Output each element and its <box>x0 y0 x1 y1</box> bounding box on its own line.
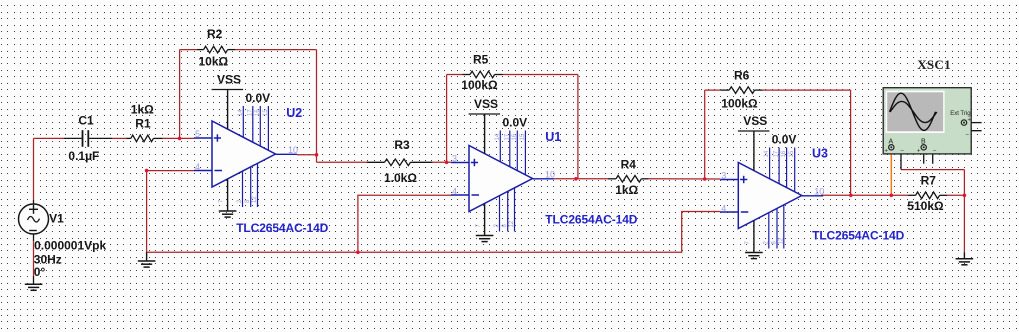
wire V1 to input corner vertical <box>33 138 35 200</box>
svg-text:14: 14 <box>764 150 770 157</box>
svg-text:V1: V1 <box>49 212 64 226</box>
oscilloscope XSC1 body <box>883 88 971 154</box>
svg-text:16: 16 <box>255 109 261 116</box>
capacitor C1 <box>64 130 112 147</box>
wire input top corner horizontal <box>34 137 65 139</box>
oscilloscope sine trace outer <box>890 93 936 130</box>
wire R2 left leg vertical <box>179 50 181 139</box>
wire U2 output to R3 <box>317 161 368 163</box>
svg-text:14: 14 <box>495 133 501 140</box>
clamp pins U2 top <box>243 106 268 150</box>
wire R6 right top horizontal <box>763 89 851 91</box>
wire U2 inverting input <box>147 170 195 172</box>
svg-text:R6: R6 <box>734 69 750 83</box>
wire V1 ground stub <box>33 276 35 284</box>
ground U1 <box>476 203 494 241</box>
svg-text:U2: U2 <box>286 106 302 120</box>
wire R1 to U2 noninverting input <box>163 137 195 139</box>
svg-text:17: 17 <box>247 109 253 116</box>
resistor R7 <box>908 192 947 199</box>
ground scope negative <box>956 252 974 265</box>
wire ext trig positive stub <box>967 122 982 124</box>
wire R7 to ground node <box>947 194 964 196</box>
junction R3 / R5 / U1 noninverting <box>445 161 449 165</box>
clamp pins U2 bottom <box>243 163 258 207</box>
svg-text:+: + <box>884 148 888 155</box>
junction scope A / output <box>890 194 894 198</box>
junction U2 inverting node <box>145 169 149 173</box>
svg-text:U3: U3 <box>812 146 828 160</box>
VSS rail U2 <box>212 90 244 130</box>
svg-text:0.0V: 0.0V <box>503 116 528 130</box>
clamp pins U1 bottom <box>500 188 515 232</box>
svg-text:17: 17 <box>774 150 780 157</box>
svg-text:4: 4 <box>195 162 200 172</box>
VSS rail U3 <box>738 131 770 171</box>
svg-text:R2: R2 <box>207 27 223 41</box>
wire V1 top lead <box>33 200 35 204</box>
op-amp U1 input leads <box>451 163 554 196</box>
svg-text:5: 5 <box>195 129 200 139</box>
wire R6 left leg vertical <box>704 90 706 179</box>
resistor R4 <box>608 176 649 183</box>
svg-text:12: 12 <box>252 196 258 203</box>
wire R5 right leg vertical <box>577 75 579 179</box>
wire U1 output to R4 <box>554 178 608 180</box>
svg-text:+: + <box>967 117 971 124</box>
junction R4 / R6 / U3 noninverting <box>703 177 707 181</box>
svg-text:VSS: VSS <box>474 97 498 111</box>
svg-text:3: 3 <box>721 171 726 181</box>
svg-text:12: 12 <box>509 220 515 227</box>
clamp pin numbers U2 top <box>238 109 269 116</box>
svg-text:TLC2654AC-14D: TLC2654AC-14D <box>812 229 904 243</box>
wire C1 to R1 <box>112 137 126 139</box>
svg-text:14: 14 <box>238 109 244 116</box>
op-amp U2 triangle <box>212 121 276 187</box>
svg-text:100kΩ: 100kΩ <box>461 78 498 92</box>
resistor R2 <box>197 46 236 53</box>
terminal polarity marks <box>884 117 971 155</box>
resistor R6 <box>721 87 763 94</box>
wire R2 right leg vertical <box>316 50 318 155</box>
wire ground rail bottom <box>147 171 721 253</box>
resistor R1 <box>126 135 163 142</box>
wire scope B positive stub <box>923 151 925 164</box>
wire V1 to ground <box>33 241 35 276</box>
wire R6 left top horizontal <box>705 89 721 91</box>
wire V1 bottom lead <box>33 234 35 241</box>
svg-text:16: 16 <box>512 133 518 140</box>
terminal B <box>921 145 926 150</box>
oscilloscope XSC1 screen <box>886 91 945 133</box>
resistor R5 <box>462 71 502 78</box>
svg-text:10: 10 <box>814 186 824 196</box>
svg-text:100kΩ: 100kΩ <box>721 97 758 111</box>
svg-text:−: − <box>900 147 904 154</box>
svg-text:10kΩ: 10kΩ <box>199 55 229 69</box>
svg-text:0.000001Vpk: 0.000001Vpk <box>34 239 106 253</box>
wire R5 left top horizontal <box>447 74 463 76</box>
wire U2 output horizontal <box>297 154 317 156</box>
wire U1 inverting input branch <box>358 195 452 252</box>
ground rail left <box>138 252 156 267</box>
svg-text:4: 4 <box>452 187 457 197</box>
svg-text:+: + <box>917 148 921 155</box>
ground U3 <box>745 220 763 258</box>
svg-text:1kΩ: 1kΩ <box>131 103 154 117</box>
wire R6 right leg vertical <box>850 90 852 195</box>
wire R5 right top horizontal <box>503 74 578 76</box>
op-amp U2 input leads <box>194 138 297 171</box>
svg-text:R5: R5 <box>473 53 489 67</box>
svg-text:1kΩ: 1kΩ <box>615 183 638 197</box>
svg-text:0.0V: 0.0V <box>246 91 271 105</box>
junction R6 right / U3 output <box>849 194 853 198</box>
ground U2 <box>219 179 237 217</box>
terminal A <box>889 145 894 150</box>
svg-text:C1: C1 <box>78 114 94 128</box>
svg-text:17: 17 <box>504 133 510 140</box>
terminal ext trig <box>961 120 966 125</box>
op-amp U1 triangle <box>469 146 533 212</box>
wire U2 output jog vertical <box>316 155 318 163</box>
wire scope negative horizontal <box>901 169 964 171</box>
svg-text:510kΩ: 510kΩ <box>907 199 944 213</box>
op-amp U3 triangle <box>738 163 802 229</box>
svg-text:−: − <box>965 131 969 138</box>
svg-text:R1: R1 <box>135 116 151 130</box>
svg-text:TLC2654AC-14D: TLC2654AC-14D <box>236 221 328 235</box>
svg-text:10: 10 <box>545 169 555 179</box>
svg-text:12: 12 <box>778 237 784 244</box>
junction U2 output / R2 right <box>315 153 319 157</box>
ground V1 <box>25 284 43 290</box>
wire R5 left leg vertical <box>446 75 448 163</box>
svg-text:0.1µF: 0.1µF <box>68 149 99 163</box>
junction R2 left / input node <box>178 137 182 141</box>
wire scope B negative stub <box>926 147 932 163</box>
svg-text:3: 3 <box>452 154 457 164</box>
svg-text:4: 4 <box>721 204 726 214</box>
svg-text:0.0V: 0.0V <box>772 133 797 147</box>
wire R4 to U3 noninverting input <box>649 178 721 180</box>
svg-text:R3: R3 <box>394 138 410 152</box>
junction R7 right / scope ground <box>963 194 967 198</box>
wire scope A positive orange <box>890 151 892 196</box>
wire R2 left top horizontal <box>180 49 197 51</box>
wire ext trig negative stub <box>964 125 982 130</box>
source V1 symbol <box>19 204 49 234</box>
clamp pins U3 top <box>770 148 795 192</box>
svg-text:R7: R7 <box>921 174 937 188</box>
wire scope ground vertical <box>963 170 965 253</box>
op-amp U3 input leads <box>720 180 823 213</box>
clamp pin numbers U3 top <box>764 150 795 157</box>
svg-text:U1: U1 <box>545 130 561 144</box>
svg-text:XSC1: XSC1 <box>917 57 951 72</box>
VSS rail U1 <box>469 114 501 154</box>
svg-text:15: 15 <box>520 133 526 140</box>
wire R2 right top horizontal <box>235 49 316 51</box>
resistor R3 <box>367 159 432 166</box>
clamp pins U3 bottom <box>769 205 784 249</box>
svg-text:16: 16 <box>781 150 787 157</box>
wire scope A negative lead stub <box>894 146 901 148</box>
wire scope A negative lead vertical <box>900 147 902 169</box>
junction ground rail / U1 inverting <box>356 250 360 254</box>
svg-text:0°: 0° <box>34 265 46 279</box>
svg-text:VSS: VSS <box>217 73 241 87</box>
clamp pin numbers U3 bottom <box>745 237 785 244</box>
clamp pin numbers U2 bottom <box>219 196 259 203</box>
svg-text:10: 10 <box>288 145 298 155</box>
svg-text:−: − <box>933 147 937 154</box>
svg-text:15: 15 <box>789 150 795 157</box>
svg-text:1.0kΩ: 1.0kΩ <box>384 171 417 185</box>
wire R3 to U1 noninverting input <box>432 161 451 163</box>
clamp pin numbers U1 top <box>495 133 526 140</box>
clamp pin numbers U1 bottom <box>476 220 516 227</box>
wire U3 output to R7 <box>821 194 908 196</box>
junction R5 right / U1 output <box>574 177 578 181</box>
svg-text:VSS: VSS <box>743 114 767 128</box>
svg-text:TLC2654AC-14D: TLC2654AC-14D <box>545 212 637 226</box>
svg-text:R4: R4 <box>621 158 637 172</box>
svg-text:15: 15 <box>263 109 269 116</box>
oscilloscope sine trace inner <box>890 101 937 122</box>
clamp pins U1 top <box>500 131 525 175</box>
